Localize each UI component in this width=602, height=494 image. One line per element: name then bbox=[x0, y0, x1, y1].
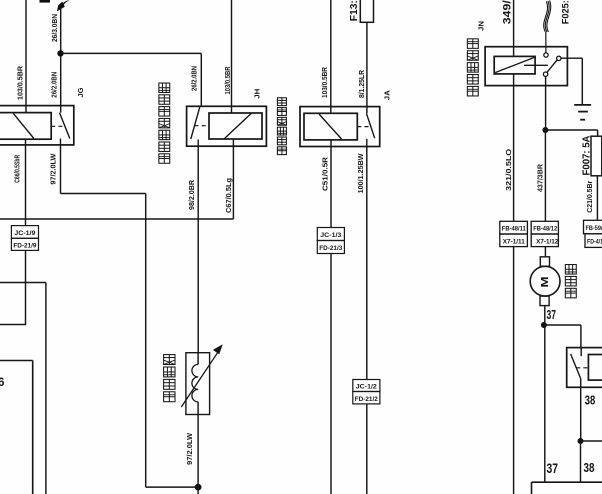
wire C51/0.5R from relay JA coil bbox=[330, 140, 332, 228]
svg-text:103/0.5BR: 103/0.5BR bbox=[320, 66, 329, 98]
svg-text:FD-4/1: FD-4/1 bbox=[587, 240, 602, 246]
bottom relay coil-switch dashed link bbox=[576, 367, 588, 369]
svg-text:37: 37 bbox=[547, 461, 559, 476]
svg-text:C67/0.5Lg: C67/0.5Lg bbox=[224, 178, 233, 213]
svg-text:C51/0.5R: C51/0.5R bbox=[320, 156, 329, 191]
relay JA switch blade bbox=[366, 113, 374, 138]
relay JN contact (to F025) bbox=[544, 53, 548, 57]
relay JH coil-switch dashed link bbox=[195, 125, 210, 127]
wire 321/0.5LO from relay JN coil bbox=[513, 74, 515, 221]
svg-text:JA: JA bbox=[383, 90, 392, 101]
component box 6 (cut off at left) bbox=[0, 361, 33, 494]
svg-text:38: 38 bbox=[585, 394, 596, 408]
svg-text:FD-21/2: FD-21/2 bbox=[355, 397, 379, 403]
label 437/3BR bbox=[536, 163, 545, 192]
wire 103/0.5BR into relay JG coil bbox=[25, 0, 27, 113]
wire net 97 bottom horizontal bbox=[146, 486, 198, 488]
resistor R variable arrow bbox=[181, 344, 223, 407]
wire net 37 from motor bbox=[544, 306, 546, 483]
wire below FD-21/9 exiting left bbox=[0, 250, 26, 324]
svg-text:X7-1/12: X7-1/12 bbox=[536, 239, 559, 245]
wire C21/0.5Br below fuse F007 bbox=[596, 176, 598, 221]
relay JH switch blade bbox=[191, 107, 200, 139]
relay JA coil box bbox=[304, 113, 357, 140]
svg-text:F007: 5A: F007: 5A bbox=[581, 135, 593, 175]
wire net 97 horizontal jog bbox=[61, 193, 146, 195]
wire below X7-1/11 to bottom edge bbox=[513, 247, 515, 494]
wire 437/3BR down to connector bbox=[544, 130, 546, 221]
wire below X7-1/12 to blower motor bbox=[544, 247, 546, 257]
relay JG outer box bbox=[0, 106, 74, 145]
connector JC-1/2 bbox=[353, 380, 380, 392]
wire net 97 stub to bottom edge bbox=[197, 487, 199, 494]
relay JG coil box bbox=[0, 113, 51, 140]
connector X7-1/11 bbox=[500, 234, 528, 247]
relay JG coil-switch dashed link bbox=[51, 125, 65, 127]
wire net 38 to bottom box bbox=[580, 441, 582, 482]
svg-text:26/2.0BN: 26/2.0BN bbox=[189, 66, 198, 91]
label 97/2.0LW (JG drop) bbox=[48, 153, 57, 185]
svg-text:26/2.0BN: 26/2.0BN bbox=[50, 72, 59, 98]
svg-text:JG: JG bbox=[76, 87, 85, 97]
label F007: 5A bbox=[581, 135, 593, 175]
relay JH coil diagonal bbox=[224, 113, 251, 139]
svg-text:X7-1/11: X7-1/11 bbox=[503, 239, 526, 245]
connector FB-59/1 (cut) bbox=[584, 220, 602, 234]
wire C67/0.5Lg from relay JH coil bbox=[232, 139, 234, 219]
svg-text:FB-48/12: FB-48/12 bbox=[533, 227, 558, 233]
relay JA coil diagonal bbox=[319, 114, 341, 139]
relay JA coil-switch dashed link bbox=[357, 126, 371, 128]
svg-text:JC-1/3: JC-1/3 bbox=[320, 233, 342, 239]
wire 26/2.0BN drop into relay JH switch bbox=[200, 53, 202, 106]
component name 風扇低速繼電器 (fan low speed relay) bbox=[159, 83, 170, 163]
relay JN switch blade bbox=[547, 60, 558, 73]
label JN bbox=[478, 21, 485, 31]
label C66/0.5SbR bbox=[14, 155, 21, 183]
svg-text:FD-21/9: FD-21/9 bbox=[13, 243, 37, 249]
off-page arrow at top of wire 26/3.0BN bbox=[57, 0, 70, 12]
resistor R coil bumps bbox=[192, 353, 198, 414]
wire net 38 branch to right edge bbox=[581, 440, 602, 442]
cut-off element at top edge bbox=[40, 0, 51, 3]
bottom relay switch blade bbox=[571, 354, 581, 379]
label 97/2.0LW (resistor drop) bbox=[185, 432, 194, 465]
fuse F007 box bbox=[591, 136, 602, 176]
connector X7-1/12 bbox=[531, 234, 559, 247]
label C21/0.5Br bbox=[585, 181, 594, 213]
relay JG coil diagonal bbox=[13, 113, 34, 138]
label 8/1.25LR bbox=[357, 69, 366, 98]
svg-text:103/0.5BR: 103/0.5BR bbox=[16, 65, 25, 100]
relay JH switch fixed contact bbox=[197, 140, 199, 147]
wire net 38 from bottom relay bbox=[580, 378, 582, 441]
blower motor M body bbox=[530, 266, 560, 296]
resistor R (speed control) box bbox=[186, 353, 210, 415]
wire 103/0.5BR into relay JH coil bbox=[231, 0, 233, 113]
svg-text:FD-21/3: FD-21/3 bbox=[319, 246, 343, 252]
label C51/0.5R bbox=[320, 156, 329, 191]
svg-text:26/3.0BN: 26/3.0BN bbox=[50, 14, 59, 42]
wire below FD-21/2 to bottom edge bbox=[366, 404, 368, 494]
label 103/0.5BR (JA coil feed) bbox=[320, 66, 329, 98]
wire 100/1.25BW from relay JA switch bbox=[366, 147, 368, 380]
svg-text:103/0.5BR: 103/0.5BR bbox=[223, 66, 232, 94]
node junction of net 97 at bottom bbox=[195, 484, 202, 491]
svg-text:437/3BR: 437/3BR bbox=[536, 163, 545, 192]
label 38 (bottom) bbox=[584, 460, 595, 475]
label 349/ bbox=[502, 0, 514, 24]
relay JA outer box bbox=[300, 107, 380, 147]
svg-text:38: 38 bbox=[584, 460, 595, 475]
wire junction to fuse F007 bbox=[545, 130, 597, 136]
relay JN outer box bbox=[485, 47, 567, 86]
label JA bbox=[383, 90, 392, 101]
node junction of net 26 bbox=[57, 50, 63, 56]
node junction net 38 bbox=[578, 438, 584, 444]
wire net 26 horizontal to relay JH bbox=[61, 52, 202, 54]
wire 26/3.0BN (top) / 26/2.0BN (below junction) into relay JG switch bbox=[60, 8, 62, 113]
relay JA switch fixed contact bbox=[366, 139, 368, 147]
relay JH outer box bbox=[187, 106, 267, 146]
svg-text:FB-48/11: FB-48/11 bbox=[502, 227, 527, 233]
wire net 97 long vertical bbox=[145, 194, 147, 488]
label 26/3.0BN bbox=[50, 14, 59, 42]
wire loom curl to F025 bbox=[544, 1, 551, 53]
svg-text:349/: 349/ bbox=[502, 0, 514, 24]
wire 349/ into relay JN coil bbox=[513, 0, 515, 56]
connector JC-1/9 bbox=[11, 226, 38, 239]
label 38 (at relay) bbox=[585, 394, 596, 408]
svg-text:97/2.0LW: 97/2.0LW bbox=[48, 153, 57, 185]
wire exiting left edge to bottom bbox=[0, 283, 46, 494]
node junction net 437 bbox=[542, 127, 548, 133]
connector FD-4/1 (cut) bbox=[585, 234, 602, 248]
svg-text:C21/0.5Br: C21/0.5Br bbox=[585, 181, 594, 213]
blower motor top terminal bbox=[540, 257, 549, 267]
connector FD-21/2 bbox=[353, 392, 380, 404]
component name 鼓風機 (blower) bbox=[565, 265, 576, 298]
relay JG switch blade bbox=[60, 113, 70, 139]
relay JN coil box bbox=[494, 56, 535, 74]
wire from JN contact to ground bbox=[561, 58, 582, 104]
blower motor bottom terminal bbox=[540, 296, 549, 306]
svg-text:M: M bbox=[539, 276, 551, 287]
svg-text:97/2.0LW: 97/2.0LW bbox=[185, 432, 194, 465]
relay JN coil diagonal bbox=[495, 57, 534, 72]
label 98/2.0BR bbox=[187, 179, 196, 210]
label 321/0.5LO bbox=[504, 149, 513, 191]
connector FB-48/12 bbox=[531, 221, 558, 234]
component name 暖風繼電器 (heater relay) bbox=[467, 39, 478, 96]
connector FD-21/9 bbox=[11, 238, 38, 250]
label F13: bbox=[348, 0, 360, 21]
connector JC-1/3 bbox=[317, 228, 344, 241]
svg-text:C66/0.5SbR: C66/0.5SbR bbox=[14, 155, 21, 183]
connector FB-48/11 bbox=[500, 221, 528, 234]
label 37 (at motor) bbox=[547, 308, 557, 322]
relay JN actuation line bbox=[524, 64, 548, 66]
wire 97/2.0LW from relay JG switch bbox=[60, 145, 62, 194]
label 26/2.0BN (JH drop) bbox=[189, 66, 198, 91]
fuse F13 box bbox=[360, 0, 373, 22]
label C67/0.5Lg bbox=[224, 178, 233, 213]
label JG bbox=[76, 87, 85, 97]
wire 97/2.0LW below resistor bbox=[197, 415, 199, 488]
label 103/0.5BR (JG coil feed) bbox=[16, 65, 25, 100]
node junction net 37 bbox=[541, 322, 547, 328]
svg-text:JN: JN bbox=[478, 21, 485, 31]
component name 調速電阻 (speed resistor) bbox=[164, 355, 175, 402]
svg-text:100/1.25BW: 100/1.25BW bbox=[356, 153, 365, 194]
ground symbol bbox=[574, 105, 591, 120]
svg-text:JH: JH bbox=[252, 89, 261, 99]
wire 98/2.0BR from relay JH switch to resistor bbox=[197, 146, 199, 353]
wire below FD-21/3 to bottom edge bbox=[330, 254, 332, 494]
svg-text:FB-59/: FB-59/ bbox=[586, 226, 602, 232]
svg-text:F13:: F13: bbox=[348, 0, 360, 21]
relay JN contact (to ground) bbox=[557, 56, 561, 60]
blower motor M letter bbox=[539, 276, 551, 287]
component name 壓縮機繼電器 (compressor relay) bbox=[277, 98, 286, 155]
svg-text:JC-1/9: JC-1/9 bbox=[14, 231, 36, 237]
bottom relay outer box bbox=[567, 348, 602, 388]
label 100/1.25BW bbox=[356, 153, 365, 194]
wire C66/0.5SbR from relay JG coil to connector bbox=[25, 139, 27, 225]
svg-text:JC-1/2: JC-1/2 bbox=[356, 385, 378, 391]
bottom component box (cut) bbox=[532, 482, 602, 494]
svg-text:8/1.25LR: 8/1.25LR bbox=[357, 69, 366, 98]
bottom relay coil box (cut) bbox=[588, 355, 602, 381]
relay JN contact (common) bbox=[543, 72, 547, 76]
label F025: bbox=[561, 0, 572, 24]
label 37 (bottom) bbox=[547, 461, 559, 476]
svg-text:37: 37 bbox=[547, 308, 557, 322]
relay JH coil box bbox=[209, 113, 262, 139]
wire net C67 horizontal to left edge bbox=[0, 218, 233, 220]
label 26/2.0BN (JG drop) bbox=[50, 72, 59, 98]
relay JG switch fixed contact bbox=[60, 139, 62, 145]
wire 8/1.25LR from fuse F13 to relay JA switch bbox=[366, 22, 368, 113]
svg-text:F025:: F025: bbox=[561, 0, 572, 24]
label 103/0.5BR (JH coil feed) bbox=[223, 66, 232, 94]
label 6 bbox=[0, 377, 4, 389]
svg-text:98/2.0BR: 98/2.0BR bbox=[187, 179, 196, 210]
wire 437/3BR from relay JN common contact bbox=[545, 76, 547, 130]
connector FD-21/3 bbox=[317, 241, 344, 254]
svg-text:321/0.5LO: 321/0.5LO bbox=[504, 149, 513, 191]
bottom relay switch pin stub bbox=[580, 348, 582, 357]
wire net 37 branch to relay bbox=[544, 325, 581, 348]
svg-text:6: 6 bbox=[0, 377, 4, 389]
label JH bbox=[252, 89, 261, 99]
wire 103/0.5BR into relay JA coil bbox=[330, 0, 332, 113]
